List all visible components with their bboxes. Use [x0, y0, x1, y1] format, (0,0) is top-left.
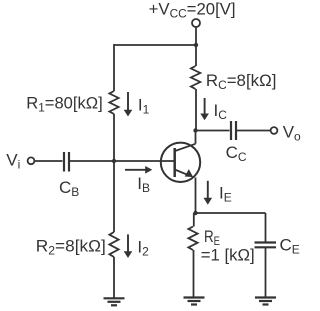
wire Vi to CB — [35, 160, 63, 162]
svg-text:R2=8[kΩ]: R2=8[kΩ] — [36, 236, 106, 257]
wire RC to collector node — [195, 89, 197, 131]
wire R1 to base node — [113, 114, 115, 161]
node junction emitter — [193, 211, 197, 215]
svg-text:+VCC=20[V]: +VCC=20[V] — [149, 0, 236, 21]
node junction base — [112, 159, 116, 163]
capacitor CE — [255, 243, 277, 248]
ground (right) — [255, 298, 276, 305]
current arrow IB — [125, 169, 146, 171]
capacitor CC — [231, 121, 236, 140]
transistor Q1 emitter arrowhead — [185, 169, 194, 177]
svg-text:RC=8[kΩ]: RC=8[kΩ] — [206, 71, 277, 92]
wire CE to ground — [265, 248, 267, 297]
terminal Vo — [271, 127, 278, 134]
wire top horizontal — [114, 44, 196, 46]
node junction collector — [193, 128, 197, 132]
wire CC to Vo — [237, 130, 271, 132]
wire right rail upper — [195, 45, 197, 66]
wire left rail lower — [113, 161, 115, 232]
capacitor CB — [64, 152, 69, 172]
resistor RC — [191, 66, 200, 89]
terminal VCC — [192, 19, 200, 27]
resistor R1 — [109, 91, 118, 114]
resistor R2 — [109, 232, 118, 257]
node junction top — [194, 43, 198, 47]
terminal Vi — [28, 157, 35, 164]
wire base node to transistor base — [114, 160, 175, 162]
wire emitter down — [195, 178, 197, 214]
wire R2 to ground — [113, 257, 115, 298]
resistor RE — [188, 227, 197, 251]
transistor Q1 base bar — [173, 148, 176, 177]
current arrow I1 — [127, 92, 129, 110]
wire emitter node to CE branch — [196, 212, 266, 214]
wire VCC down — [195, 28, 197, 46]
current arrow IE — [207, 181, 209, 198]
wire collector node to CC — [196, 130, 230, 132]
wire collector stub — [195, 131, 197, 144]
ground (middle) — [184, 298, 205, 305]
wire emitter node to RE — [193, 213, 195, 227]
current arrow IC — [204, 98, 206, 114]
wire RE to ground — [193, 250, 195, 297]
transistor Q1 collector lead — [175, 144, 196, 151]
current arrow I2 — [127, 234, 129, 251]
transistor Q1 circle — [161, 143, 200, 182]
svg-text:R1=80[kΩ]: R1=80[kΩ] — [26, 94, 103, 115]
wire CB to base node — [70, 160, 114, 162]
wire left rail upper — [113, 44, 115, 91]
svg-text:=1 [kΩ]: =1 [kΩ] — [201, 246, 255, 265]
ground (left) — [104, 298, 125, 305]
transistor Q1 emitter lead — [175, 170, 190, 176]
wire CE branch down — [265, 213, 267, 242]
